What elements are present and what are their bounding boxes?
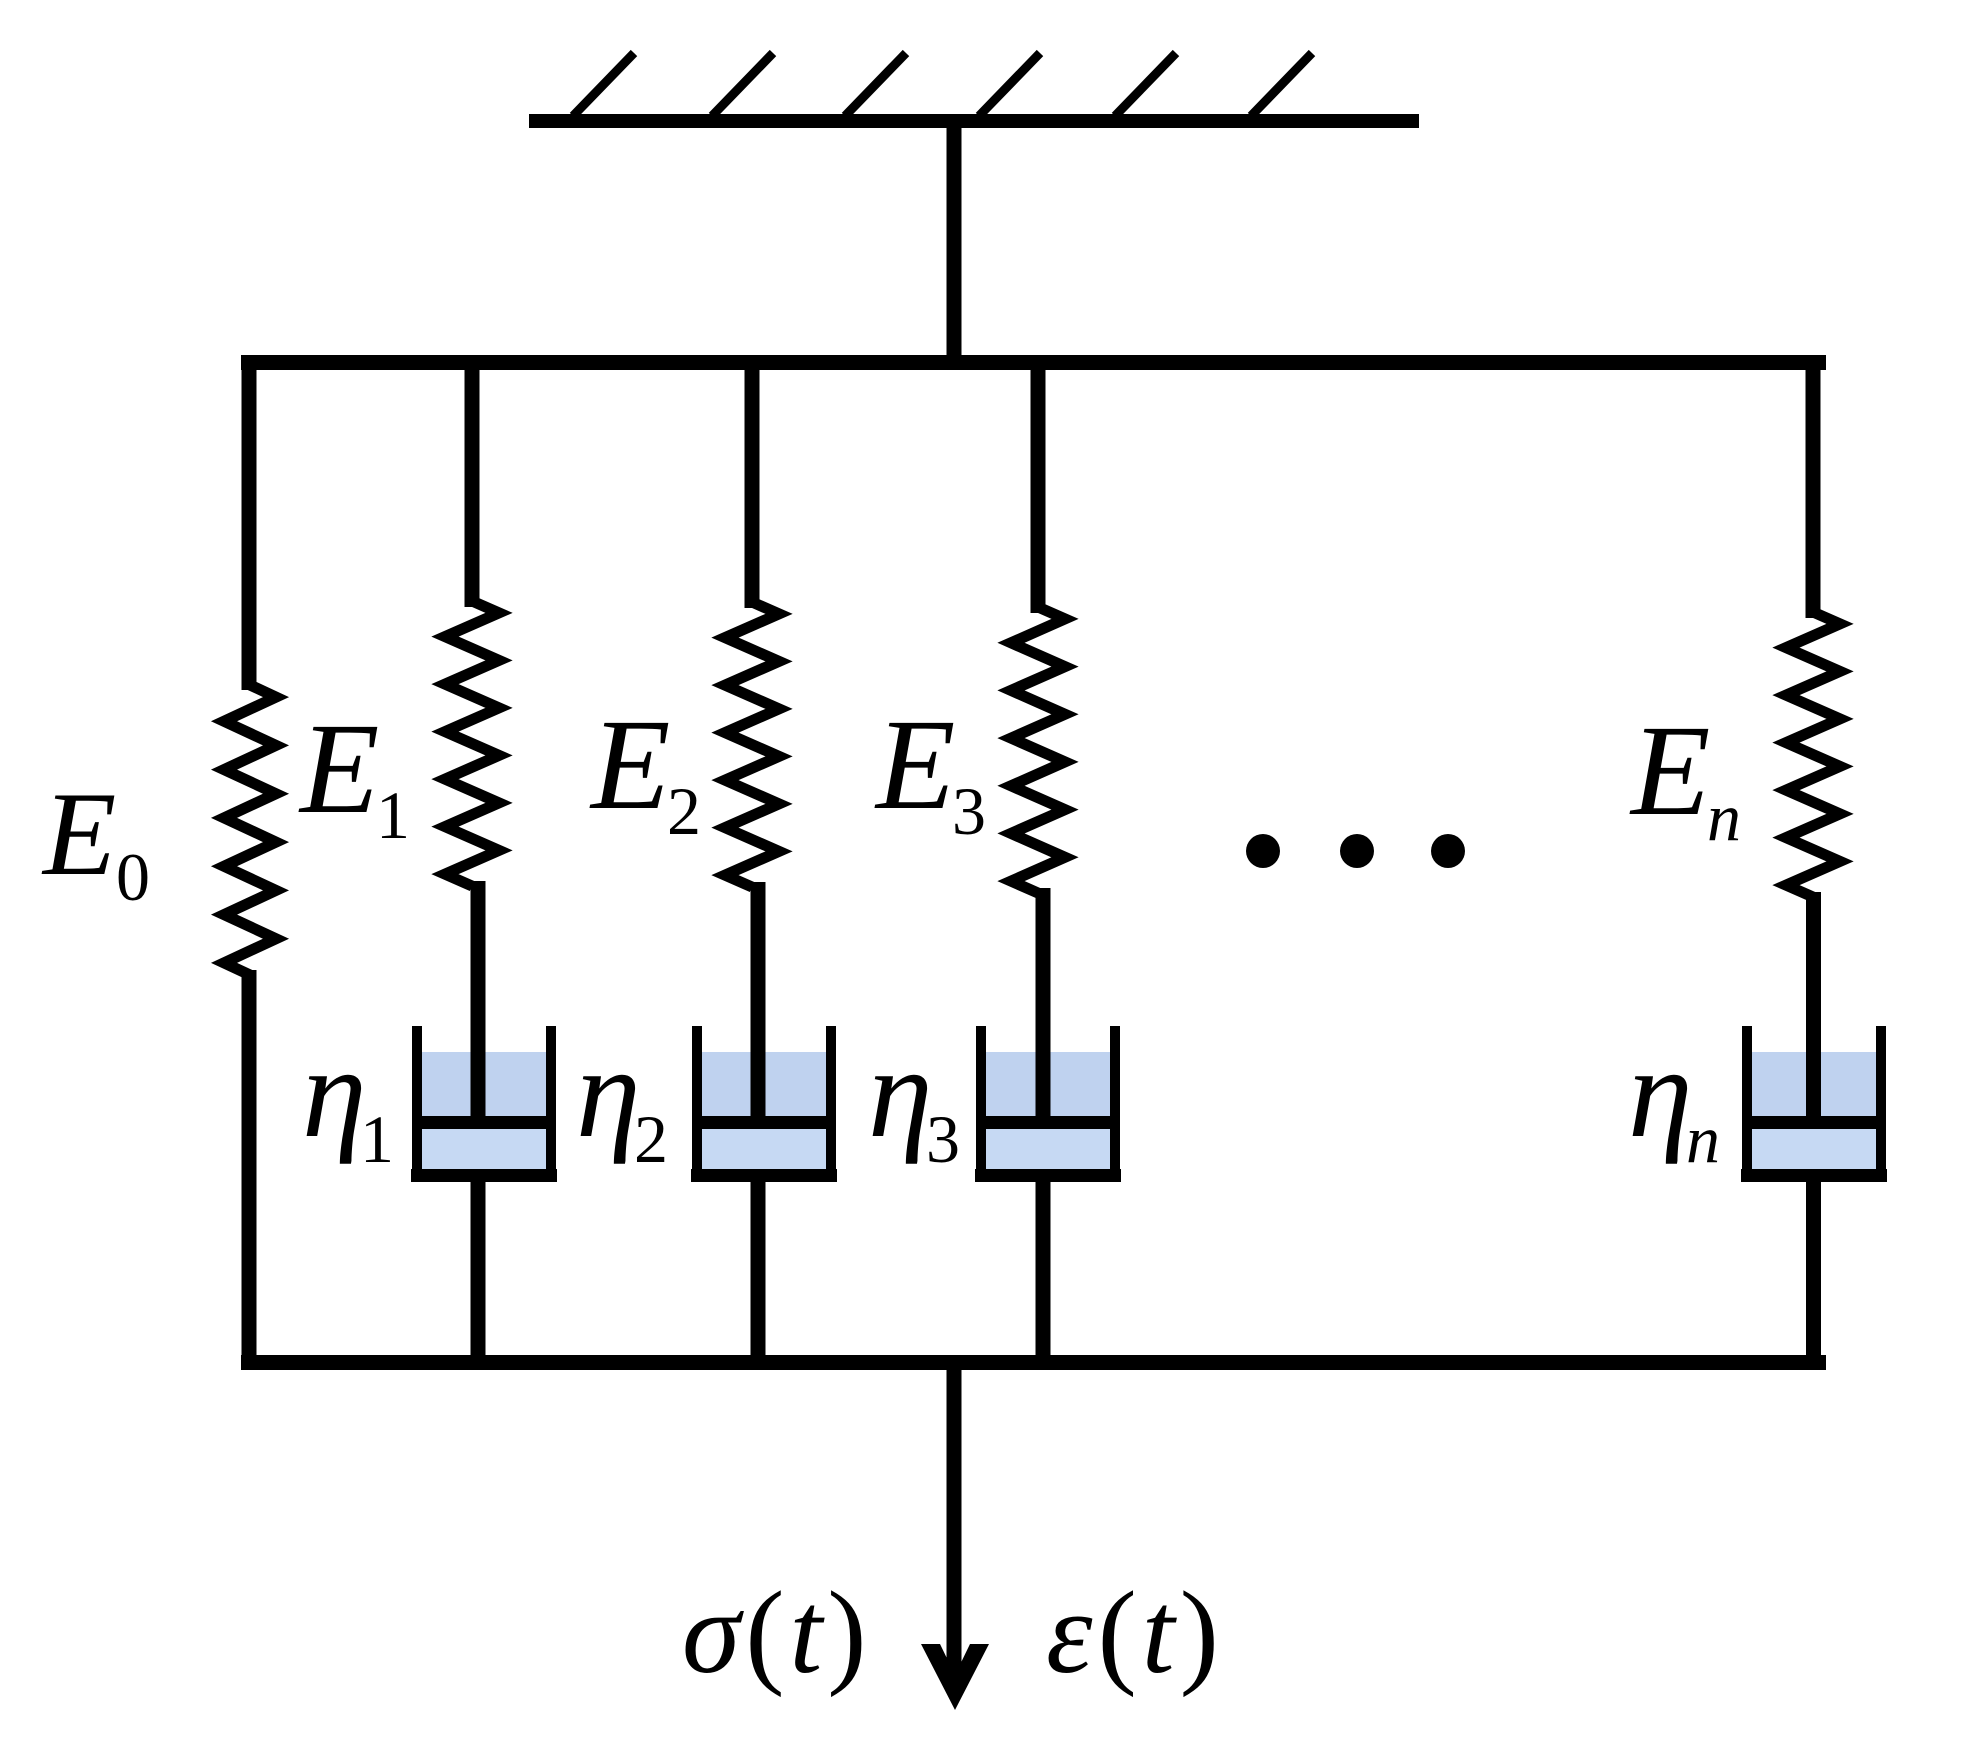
- ellipsis dots: [1246, 834, 1465, 868]
- dashpot etan fluid (lower): [1752, 1129, 1876, 1169]
- svg-text:E: E: [874, 693, 955, 837]
- wire: load arrow shaft: [947, 1362, 962, 1678]
- spring E0: [224, 685, 276, 975]
- label E3: [874, 693, 986, 849]
- label E1: [298, 697, 410, 853]
- wire: E1 branch upper: [465, 358, 480, 607]
- wire: E0 branch upper: [242, 358, 257, 690]
- wire: eta1 to bottom bus: [471, 1180, 486, 1367]
- dashpot eta1 cup right wall: [546, 1026, 556, 1182]
- label etan: [1628, 1021, 1720, 1177]
- top bus bar: [241, 355, 1826, 370]
- dashpot eta3 cup left wall: [976, 1026, 986, 1182]
- spring E2: [725, 602, 779, 887]
- svg-text:3: 3: [926, 1101, 960, 1177]
- svg-text:ε(t): ε(t): [1046, 1567, 1224, 1698]
- dashpot eta3 piston rod: [1036, 888, 1051, 1120]
- dashpot eta1 fluid (upper): [422, 1052, 546, 1116]
- dashpot eta1 piston plate: [414, 1116, 554, 1129]
- svg-text:3: 3: [952, 773, 986, 849]
- wire: eta2 to bottom bus: [751, 1180, 766, 1367]
- dashpot eta2 fluid (lower): [702, 1129, 826, 1169]
- svg-text:E: E: [1629, 699, 1710, 843]
- wire: eta3 to bottom bus: [1036, 1180, 1051, 1367]
- wire: E3 branch upper: [1031, 358, 1046, 613]
- svg-text:1: 1: [376, 777, 410, 853]
- svg-text:2: 2: [634, 1101, 668, 1177]
- label En: [1629, 699, 1741, 855]
- svg-text:E: E: [41, 767, 116, 900]
- dashpot etan fluid (upper): [1752, 1052, 1876, 1116]
- spring E3: [1011, 607, 1065, 893]
- wire: etan to bottom bus: [1806, 1180, 1821, 1367]
- dashpot etan cup right wall: [1876, 1026, 1886, 1182]
- svg-text:0: 0: [116, 839, 150, 915]
- wire: E2 branch upper: [745, 358, 760, 608]
- wire: En branch upper: [1806, 358, 1821, 618]
- fixed support bar: [529, 114, 1419, 128]
- load arrowhead: [921, 1644, 989, 1710]
- svg-text:E: E: [298, 697, 379, 841]
- wire: E0 branch lower: [242, 970, 257, 1367]
- svg-text:E: E: [589, 693, 670, 837]
- svg-text:σ(t): σ(t): [682, 1567, 872, 1698]
- svg-text:η: η: [868, 1021, 933, 1165]
- spring E1: [445, 601, 499, 886]
- dashpot eta1 cup left wall: [412, 1026, 422, 1182]
- dashpot eta3 cup right wall: [1110, 1026, 1120, 1182]
- dashpot eta1 cup bottom: [411, 1169, 557, 1182]
- label eta3: [868, 1021, 960, 1177]
- label E0: [41, 767, 150, 915]
- svg-text:2: 2: [667, 773, 701, 849]
- dashpot eta3 fluid (upper): [986, 1052, 1110, 1116]
- svg-text:η: η: [1628, 1021, 1693, 1165]
- svg-text:η: η: [576, 1021, 641, 1165]
- dashpot eta3 cup bottom: [975, 1169, 1121, 1182]
- fixed support hatching: [573, 53, 1312, 116]
- dashpot eta1 piston rod: [471, 881, 486, 1120]
- dashpot etan cup left wall: [1742, 1026, 1752, 1182]
- svg-text:n: n: [1686, 1101, 1720, 1177]
- label eta2: [576, 1021, 668, 1177]
- dashpot eta2 piston plate: [694, 1116, 834, 1129]
- label eta1: [302, 1021, 394, 1177]
- dashpot eta2 cup left wall: [692, 1026, 702, 1182]
- dashpot etan piston plate: [1744, 1116, 1884, 1129]
- spring En: [1786, 612, 1840, 897]
- bottom bus bar: [241, 1355, 1826, 1370]
- dashpot eta3 fluid (lower): [986, 1129, 1110, 1169]
- svg-text:η: η: [302, 1021, 367, 1165]
- dashpot etan piston rod: [1806, 892, 1821, 1120]
- dashpot eta2 piston rod: [751, 882, 766, 1120]
- label epsilon(t): [1046, 1567, 1224, 1698]
- label E2: [589, 693, 701, 849]
- label sigma(t): [682, 1567, 872, 1698]
- svg-text:1: 1: [360, 1101, 394, 1177]
- dashpot eta2 cup bottom: [691, 1169, 837, 1182]
- dashpot eta1 fluid (lower): [422, 1129, 546, 1169]
- wire: support to top bus: [947, 126, 962, 362]
- dashpot eta2 cup right wall: [826, 1026, 836, 1182]
- dashpot etan cup bottom: [1741, 1169, 1887, 1182]
- dashpot eta2 fluid (upper): [702, 1052, 826, 1116]
- svg-text:n: n: [1707, 779, 1741, 855]
- dashpot eta3 piston plate: [978, 1116, 1118, 1129]
